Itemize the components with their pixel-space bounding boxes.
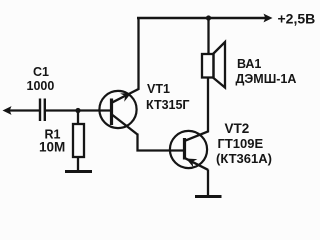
wire: VT1 to VT2 base — [138, 134, 185, 151]
transistor VT2 (GT109E) body — [170, 131, 207, 168]
speaker BA1 cone — [214, 42, 226, 88]
svg-text:1000: 1000 — [27, 79, 55, 93]
wire: C1 to VT1 base — [46, 109, 111, 111]
ground bar under VT2 — [195, 195, 222, 198]
ground bar under R1 — [65, 170, 92, 173]
speaker BA1 body — [202, 54, 214, 78]
svg-text:ВА1: ВА1 — [237, 57, 261, 71]
VT2 emitter lead (lower, arrow into base) — [185, 158, 208, 170]
VT2 emitter arrow — [186, 159, 197, 168]
svg-text:КТ315Г: КТ315Г — [146, 98, 190, 112]
svg-text:VT2: VT2 — [225, 121, 250, 136]
wire: BA1 bottom to VT2 collector — [185, 78, 208, 141]
transistor VT1 (KT315G) body — [99, 91, 136, 128]
wire: top rail down to BA1 — [207, 18, 209, 54]
capacitor C1 right plate — [44, 99, 46, 122]
node: C1 / R1 / VT1 base junction — [75, 108, 80, 113]
wire: R1 to ground — [77, 157, 79, 171]
VT1 base bar — [110, 99, 113, 126]
capacitor C1 left plate — [39, 99, 41, 122]
input terminal arrow (antenna) — [3, 106, 12, 115]
wire: VT2 emitter down to ground — [207, 170, 209, 197]
svg-text:+2,5В: +2,5В — [278, 11, 316, 27]
wire: input arrow to C1 — [8, 109, 39, 111]
wire: VT1 emitter lead up to +2,5V rail — [113, 17, 139, 102]
power terminal arrow +2,5V — [264, 14, 273, 23]
svg-text:10М: 10М — [39, 140, 65, 155]
node: top rail / speaker junction — [206, 15, 211, 20]
svg-text:VT1: VT1 — [147, 82, 170, 96]
svg-text:ДЭМШ-1А: ДЭМШ-1А — [236, 72, 297, 86]
svg-text:(КТ361А): (КТ361А) — [216, 151, 272, 166]
wire: +2.5V top rail — [137, 17, 266, 19]
VT1 collector lead (lower) — [113, 115, 138, 135]
wire: junction down to R1 — [77, 111, 79, 125]
VT2 base bar — [183, 138, 186, 160]
svg-text:ГТ109Е: ГТ109Е — [218, 136, 264, 151]
resistor R1 body — [73, 124, 84, 157]
svg-text:C1: C1 — [33, 65, 49, 79]
VT1 emitter arrow — [120, 93, 131, 102]
